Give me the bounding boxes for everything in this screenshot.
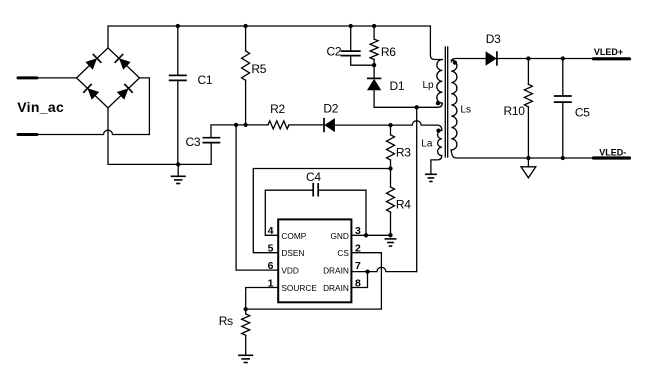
svg-text:D2: D2 [323, 101, 338, 115]
svg-text:C2: C2 [327, 44, 342, 58]
svg-text:DRAIN: DRAIN [323, 266, 349, 276]
svg-text:VLED+: VLED+ [594, 47, 623, 57]
svg-text:SOURCE: SOURCE [281, 283, 317, 293]
svg-text:CS: CS [337, 248, 349, 258]
svg-text:4: 4 [268, 225, 274, 237]
svg-text:1: 1 [268, 277, 274, 289]
svg-text:DSEN: DSEN [281, 248, 304, 258]
svg-text:C3: C3 [186, 135, 201, 149]
svg-text:R3: R3 [396, 146, 411, 160]
svg-text:La: La [421, 139, 433, 150]
svg-text:VLED-: VLED- [599, 147, 626, 157]
svg-text:D1: D1 [390, 79, 405, 93]
svg-text:DRAIN: DRAIN [323, 283, 349, 293]
svg-text:R6: R6 [381, 45, 396, 59]
svg-text:C5: C5 [575, 106, 590, 120]
svg-text:R2: R2 [270, 102, 285, 116]
svg-text:6: 6 [268, 260, 274, 272]
svg-text:3: 3 [355, 225, 361, 237]
svg-text:8: 8 [355, 277, 361, 289]
svg-text:COMP: COMP [281, 231, 306, 241]
svg-text:Rs: Rs [219, 314, 233, 328]
svg-text:C1: C1 [198, 73, 213, 87]
svg-text:R5: R5 [251, 62, 266, 76]
svg-text:C4: C4 [306, 170, 321, 184]
svg-text:Lp: Lp [423, 80, 435, 91]
svg-text:GND: GND [330, 231, 348, 241]
svg-text:2: 2 [355, 243, 361, 255]
svg-text:VDD: VDD [281, 266, 299, 276]
svg-text:7: 7 [355, 260, 361, 272]
svg-text:5: 5 [268, 243, 274, 255]
svg-text:R10: R10 [504, 104, 526, 118]
svg-text:Vin_ac: Vin_ac [17, 99, 64, 115]
svg-text:R4: R4 [396, 197, 411, 211]
svg-text:Ls: Ls [460, 104, 471, 115]
svg-text:D3: D3 [486, 32, 501, 46]
